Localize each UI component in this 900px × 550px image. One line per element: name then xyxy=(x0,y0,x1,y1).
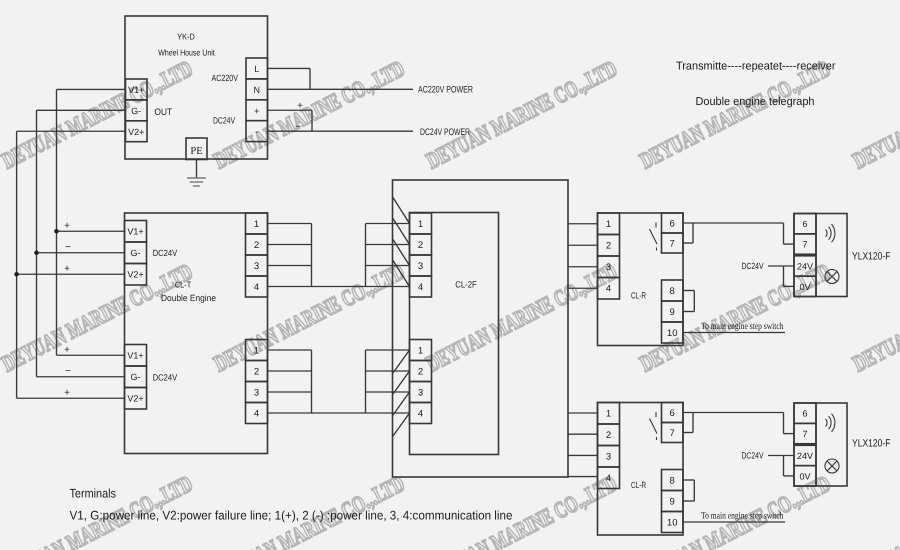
svg-text:6: 6 xyxy=(670,408,675,419)
svg-text:+: + xyxy=(64,264,70,275)
svg-text:−: − xyxy=(295,121,301,132)
svg-text:CL-2F: CL-2F xyxy=(455,280,477,290)
svg-text:V2+: V2+ xyxy=(128,127,144,137)
svg-text:−: − xyxy=(65,366,71,377)
svg-text:2: 2 xyxy=(418,240,423,251)
svg-text:1: 1 xyxy=(606,219,611,230)
svg-text:CL-R: CL-R xyxy=(631,291,646,301)
svg-text:−: − xyxy=(65,242,71,253)
svg-text:1: 1 xyxy=(418,346,423,357)
svg-text:V1, G:power line, V2:power f: V1, G:power line, V2:power failure line;… xyxy=(70,509,513,523)
svg-text:+: + xyxy=(297,100,303,111)
svg-text:-: - xyxy=(255,127,258,137)
svg-text:3: 3 xyxy=(606,262,611,273)
svg-text:AC220V POWER: AC220V POWER xyxy=(418,84,473,95)
svg-text:Transmitte----repeatet----rece: Transmitte----repeatet----receiver xyxy=(676,61,836,73)
svg-text:Double Engine: Double Engine xyxy=(161,293,216,303)
svg-text:Double engine telegraph: Double engine telegraph xyxy=(696,96,815,108)
svg-text:6: 6 xyxy=(802,219,807,229)
svg-text:9: 9 xyxy=(670,497,675,508)
svg-text:4: 4 xyxy=(418,282,423,293)
svg-text:4: 4 xyxy=(606,473,611,484)
svg-text:24V: 24V xyxy=(797,451,813,461)
svg-text:3: 3 xyxy=(606,452,611,463)
svg-text:24V: 24V xyxy=(797,262,813,272)
svg-text:2: 2 xyxy=(606,241,611,252)
svg-text:+: + xyxy=(64,221,70,232)
svg-text:10: 10 xyxy=(667,518,678,529)
svg-text:DC24V: DC24V xyxy=(153,248,178,258)
svg-text:YK-D: YK-D xyxy=(177,32,195,42)
svg-text:6: 6 xyxy=(670,219,675,230)
svg-text:Terminals: Terminals xyxy=(70,487,117,501)
svg-text:7: 7 xyxy=(670,428,675,439)
svg-text:CL-T: CL-T xyxy=(175,280,192,290)
svg-text:7: 7 xyxy=(802,429,807,439)
svg-text:8: 8 xyxy=(670,286,675,297)
svg-text:CL-R: CL-R xyxy=(631,480,646,490)
svg-text:+: + xyxy=(64,388,70,399)
svg-text:AC220V: AC220V xyxy=(212,73,239,83)
svg-text:YLX120-F: YLX120-F xyxy=(852,251,891,263)
svg-text:2: 2 xyxy=(606,430,611,441)
svg-text:4: 4 xyxy=(418,409,423,420)
svg-text:3: 3 xyxy=(254,388,259,399)
svg-text:4: 4 xyxy=(254,282,259,293)
svg-text:9: 9 xyxy=(670,307,675,318)
svg-text:DC24V: DC24V xyxy=(742,261,764,271)
svg-text:To main engine step switch: To main engine step switch xyxy=(701,512,784,522)
svg-text:1: 1 xyxy=(254,346,259,357)
svg-text:1: 1 xyxy=(606,409,611,420)
svg-text:G-: G- xyxy=(131,106,141,116)
svg-text:0V: 0V xyxy=(799,471,810,481)
svg-text:1: 1 xyxy=(254,219,259,230)
svg-text:7: 7 xyxy=(802,240,807,250)
svg-text:G-: G- xyxy=(131,248,141,258)
svg-text:4: 4 xyxy=(254,409,259,420)
svg-text:Wheel House Unit: Wheel House Unit xyxy=(158,48,215,58)
svg-text:2: 2 xyxy=(254,367,259,378)
svg-text:+: + xyxy=(64,345,70,356)
svg-text:DC24V: DC24V xyxy=(153,373,178,383)
svg-text:PE: PE xyxy=(190,146,202,157)
svg-text:7: 7 xyxy=(670,239,675,250)
svg-text:DC24V POWER: DC24V POWER xyxy=(420,127,470,138)
svg-text:V1+: V1+ xyxy=(128,85,144,95)
svg-text:6: 6 xyxy=(802,409,807,419)
svg-text:OUT: OUT xyxy=(155,107,173,118)
svg-text:2: 2 xyxy=(418,367,423,378)
svg-text:8: 8 xyxy=(670,476,675,487)
svg-text:2: 2 xyxy=(254,240,259,251)
svg-text:V1+: V1+ xyxy=(127,227,143,237)
svg-text:V2+: V2+ xyxy=(127,270,143,280)
svg-text:DC24V: DC24V xyxy=(213,116,235,126)
svg-text:0V: 0V xyxy=(799,282,810,292)
svg-text:3: 3 xyxy=(418,388,423,399)
svg-text:3: 3 xyxy=(418,261,423,272)
svg-text:N: N xyxy=(253,85,260,95)
svg-text:V2+: V2+ xyxy=(127,394,143,404)
svg-text:DC24V: DC24V xyxy=(742,451,764,461)
svg-text:10: 10 xyxy=(667,328,678,339)
svg-text:4: 4 xyxy=(606,284,611,295)
svg-text:V1+: V1+ xyxy=(127,351,143,361)
svg-text:L: L xyxy=(254,64,259,74)
svg-text:YLX120-F: YLX120-F xyxy=(852,438,891,450)
svg-text:+: + xyxy=(254,106,259,116)
svg-text:G-: G- xyxy=(131,372,141,382)
svg-text:To main engine step switch: To main engine step switch xyxy=(701,322,784,332)
svg-text:1: 1 xyxy=(418,219,423,230)
svg-text:3: 3 xyxy=(254,261,259,272)
